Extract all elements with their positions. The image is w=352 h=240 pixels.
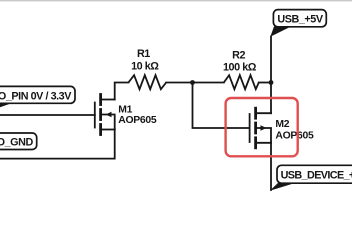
M2 source lead [256,142,271,144]
M1 channel bar top [99,95,102,105]
M1 gate line [94,103,96,128]
svg-text:R2: R2 [232,49,245,61]
svg-text:USB_+5V: USB_+5V [277,14,323,26]
svg-text:GPIO_GND: GPIO_GND [0,136,33,148]
M1 source lead [101,129,115,131]
svg-text:AOP605: AOP605 [275,130,314,141]
wire junction down to M2 drain [270,83,272,114]
M2 channel bar middle [254,123,257,133]
wire GPIO_PIN to M1 gate [0,114,95,116]
transistor M1 (P-ch MOSFET) [95,95,115,135]
M2 body arrow (points right) [261,125,267,131]
wire node R1R2 down to M2 gate [193,83,250,129]
red highlight box around M2 [226,98,298,156]
net label USB_DEVICE_+5V [270,165,352,191]
M2 gate line [249,114,251,142]
svg-text:100 kΩ: 100 kΩ [223,62,257,74]
junction node R2/+5V/M2-drain [269,80,274,85]
wire GPIO_GND to M1 source [0,130,115,159]
M1 body arrow (points left) [106,112,112,118]
resistor R2 value labels [223,49,257,73]
svg-text:AOP605: AOP605 [118,115,157,126]
net label GPIO_PIN 0V / 3.3V [0,86,75,110]
M2 channel bar bottom [254,138,257,148]
svg-text:M1: M1 [118,104,132,115]
wire M1 drain to R1 [115,83,129,100]
M1 body lead [101,115,115,130]
resistor R2 [224,75,259,89]
M2 reference labels [275,119,314,142]
M2 channel bar top [254,108,257,118]
resistor R1 value labels [131,48,159,72]
svg-text:R1: R1 [137,48,150,60]
M1 channel bar middle [99,110,102,120]
net label USB_+5V [270,10,326,37]
wire junction up to USB_+5V label [270,37,272,83]
wire R2 right to +5V junction [259,82,271,84]
svg-text:USB_DEVICE_+5V: USB_DEVICE_+5V [281,170,352,182]
M1 drain lead [101,99,115,101]
M2 body lead [256,128,271,143]
M1 reference labels [118,104,157,126]
M2 drain lead [256,112,271,114]
wire R1 right to R2 left [166,82,224,84]
M1 channel bar bottom [99,125,102,135]
svg-text:M2: M2 [275,119,289,130]
transistor M2 (N-ch MOSFET) [250,108,271,148]
svg-text:GPIO_PIN 0V / 3.3V: GPIO_PIN 0V / 3.3V [0,90,72,102]
top screen border [0,0,352,1]
wire M2 source down to USB_DEVICE label [270,143,272,190]
net label GPIO_GND [0,133,37,150]
svg-text:10 kΩ: 10 kΩ [131,60,159,72]
resistor R1 [128,75,166,89]
junction node R1/R2/M2-gate [190,80,195,85]
